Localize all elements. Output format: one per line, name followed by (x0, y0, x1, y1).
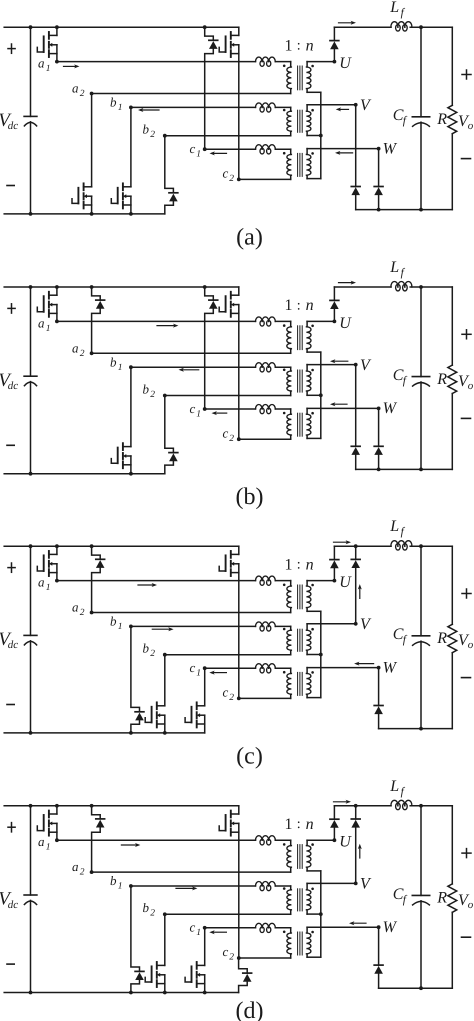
svg-text:R: R (436, 371, 447, 388)
inductor Lb series phase b (d) (256, 882, 276, 891)
svg-text:R: R (436, 890, 447, 907)
label W (c) (383, 659, 398, 676)
wire node W line (a) (307, 147, 380, 151)
label Vdc (c) (0, 629, 18, 651)
svg-text:1: 1 (118, 103, 123, 113)
wire node a1 line (c) (55, 579, 291, 583)
svg-text:n: n (306, 816, 314, 833)
label R (b) (436, 371, 447, 388)
svg-text:c: c (190, 660, 196, 675)
wire bottom dc rail (d) (4, 992, 238, 994)
arrow current ib1 right (d) (176, 886, 197, 890)
svg-text:b: b (110, 95, 117, 110)
label + output (c) (462, 589, 471, 598)
wire output top line (c) (334, 545, 452, 547)
transistor bottom b1 MOSFET (b) (111, 367, 133, 475)
label Vdc (a) (0, 110, 18, 132)
wire node W line (c) (307, 666, 380, 670)
svg-text:a: a (72, 81, 79, 96)
wire node W line (d) (307, 925, 380, 929)
wire bottom dc rail (c) (4, 732, 205, 734)
transformer T1 (d) (283, 840, 314, 872)
wire node a1 line (d) (55, 838, 291, 842)
svg-text:W: W (383, 400, 398, 417)
wire top dc rail (c) (4, 545, 239, 547)
arrow current iV left (a) (336, 107, 349, 111)
label + output (d) (462, 849, 471, 858)
svg-text:1: 1 (285, 297, 293, 314)
svg-text:1: 1 (285, 37, 293, 54)
label a1 (d) (38, 834, 51, 853)
wire node a2 line (a) (90, 92, 291, 96)
svg-text:2: 2 (80, 89, 85, 99)
label c1 (b) (190, 401, 202, 420)
label Cf (a) (393, 107, 408, 127)
svg-text:1: 1 (285, 816, 293, 833)
label b1 (b) (110, 354, 123, 373)
wire node b1 line (d) (129, 884, 291, 888)
wire node b2 line (d) (163, 912, 291, 916)
svg-text:1: 1 (118, 882, 123, 892)
label c2 (c) (223, 685, 235, 704)
label b2 (a) (143, 122, 156, 141)
inductor Lf (b) (391, 282, 412, 291)
label - input (b) (7, 444, 14, 446)
wire output bottom line (b) (356, 468, 453, 472)
wire top dc rail (b) (4, 286, 239, 288)
diode DV rectifier V bottom (a) (351, 105, 360, 210)
arrow current iU right (a) (339, 21, 357, 25)
wire node c2 line (d) (237, 956, 291, 960)
inductor La series phase a (d) (256, 836, 276, 845)
svg-text:1: 1 (118, 622, 123, 632)
svg-text:(a): (a) (236, 224, 263, 250)
svg-text:V: V (360, 876, 372, 893)
transformer T1 (b) (283, 321, 314, 353)
label c2 (b) (223, 425, 235, 444)
transformer T3 (c) (283, 668, 314, 699)
wire output top line (d) (334, 805, 452, 807)
svg-text:dc: dc (8, 120, 18, 132)
diode top c1 (b) (203, 285, 218, 409)
transformer T3 (d) (283, 927, 314, 958)
inductor Lb series phase b (a) (256, 103, 276, 112)
label c1 (d) (190, 920, 202, 939)
label - output (b) (462, 417, 471, 419)
label Vo (d) (458, 892, 474, 911)
arrow current iW left (b) (330, 402, 347, 406)
arrow current ic1 left (a) (210, 151, 227, 155)
wire node c1 line (a) (203, 147, 291, 151)
transformer T1 (a) (283, 62, 314, 94)
svg-text:2: 2 (150, 130, 155, 140)
diode DU rectifier U (a) (330, 27, 339, 61)
wire node c2 line (a) (237, 178, 291, 182)
diode DW rectifier W bottom (a) (374, 149, 383, 210)
diode DU rectifier U (d) (330, 806, 339, 840)
wire node V line (a) (307, 103, 358, 107)
svg-text:V: V (360, 616, 372, 633)
wire node V line (c) (307, 622, 358, 626)
svg-text:1: 1 (196, 928, 201, 938)
svg-text:a: a (38, 834, 45, 849)
diode bottom b2 (b) (165, 396, 178, 474)
svg-text:R: R (436, 111, 447, 128)
diode DW rectifier W bottom (b) (374, 408, 383, 469)
svg-text::: : (297, 817, 301, 832)
transformer T2 (b) (283, 365, 314, 396)
resistor R load (b) (448, 287, 457, 469)
svg-text:R: R (436, 630, 447, 647)
svg-text:b: b (110, 354, 117, 369)
transformer T1 (c) (283, 581, 314, 613)
label Vo (a) (458, 113, 474, 132)
label c1 (a) (190, 141, 202, 160)
svg-text:f: f (403, 634, 408, 646)
subfigure (c) group start (0, 0, 1, 1)
wire secondary star bus (c) (307, 611, 323, 697)
svg-text:U: U (339, 574, 352, 591)
label Cf (c) (393, 626, 408, 646)
svg-text:b: b (143, 381, 150, 396)
svg-text:dc: dc (8, 899, 18, 911)
diode top c1 (a) (203, 25, 218, 149)
transistor bottom b2 MOSFET (d) (145, 914, 167, 994)
transistor top c2 MOSFET (b) (219, 287, 239, 439)
diode DW rectifier W bottom (d) (374, 927, 383, 988)
svg-text:c: c (223, 685, 229, 700)
label + output (a) (462, 70, 471, 79)
transistor top a1 MOSFET (c) (37, 544, 59, 580)
diode bottom b2 (a) (165, 136, 178, 214)
svg-text:b: b (143, 122, 150, 137)
svg-text:1: 1 (196, 669, 201, 679)
resistor R load (d) (448, 806, 457, 988)
label - output (d) (462, 936, 471, 938)
arrow current ia1 right (b) (157, 324, 178, 328)
label b2 (d) (143, 900, 156, 919)
svg-text:V: V (360, 357, 372, 374)
wire output bottom line (a) (356, 208, 453, 212)
label R (c) (436, 630, 447, 647)
arrow current ic1 left (c) (209, 671, 226, 675)
svg-text:b: b (110, 873, 117, 888)
svg-text:2: 2 (229, 174, 234, 184)
label c2 (d) (223, 944, 235, 963)
wire top dc rail (d) (4, 805, 239, 807)
svg-text:a: a (38, 315, 45, 330)
label a1 (b) (38, 315, 51, 334)
svg-text:U: U (339, 834, 352, 851)
diode DW rectifier W bottom (c) (374, 668, 383, 729)
wire node U line (b) (307, 320, 336, 324)
svg-text:b: b (143, 900, 150, 915)
diode top a2 (d) (90, 804, 105, 872)
label Lf (d) (389, 778, 405, 798)
svg-text:W: W (383, 659, 398, 676)
svg-text:1: 1 (196, 150, 201, 160)
svg-text:(b): (b) (236, 484, 264, 510)
label Cf (b) (393, 367, 408, 387)
diode top a2 (b) (90, 285, 105, 353)
diode bottom b1 (d) (129, 886, 144, 994)
transistor top c2 MOSFET (d) (219, 806, 239, 958)
arrow current ia1 right (a) (64, 64, 80, 68)
label R (d) (436, 890, 447, 907)
label a2 (b) (72, 340, 85, 359)
wire node a2 line (c) (90, 611, 291, 615)
caption (c) (236, 743, 263, 769)
wire node U line (d) (307, 838, 336, 842)
inductor Lf (d) (391, 800, 412, 809)
wire top dc rail (a) (4, 26, 239, 28)
wire node U line (a) (307, 60, 336, 64)
label V (a) (360, 97, 372, 114)
label 1:n (c) (285, 556, 314, 573)
svg-text:1: 1 (46, 583, 51, 593)
resistor R load (a) (448, 27, 457, 209)
svg-text:n: n (306, 556, 314, 573)
svg-text:c: c (223, 425, 229, 440)
svg-text:W: W (383, 140, 398, 157)
diode DV freewheel V top (c) (351, 544, 360, 624)
label + output (b) (462, 330, 471, 339)
diode bottom b1 (c) (129, 626, 144, 734)
label + input (c) (8, 563, 15, 572)
transformer T2 (c) (283, 624, 314, 655)
svg-text:c: c (190, 920, 196, 935)
svg-text:f: f (401, 526, 406, 538)
capacitor Cf (d) (412, 804, 429, 988)
label W (b) (383, 400, 398, 417)
svg-text:2: 2 (80, 608, 85, 618)
svg-text:1: 1 (46, 324, 51, 334)
svg-text:f: f (403, 375, 408, 387)
label Vdc (d) (0, 889, 18, 911)
label b2 (c) (143, 641, 156, 660)
arrow current iV up (c) (358, 584, 362, 598)
label - input (a) (7, 185, 14, 187)
label U (b) (339, 315, 352, 332)
capacitor Vdc dc-link (d) (24, 804, 37, 995)
svg-text:2: 2 (150, 649, 155, 659)
transistor top c2 MOSFET (c) (219, 546, 239, 698)
arrow current iU right (b) (339, 281, 357, 285)
svg-text:L: L (389, 518, 399, 535)
svg-text:o: o (468, 120, 474, 132)
svg-text:(d): (d) (236, 998, 264, 1021)
diode DU rectifier U (b) (330, 287, 339, 321)
wire node W line (b) (307, 407, 380, 411)
label - output (c) (462, 677, 471, 679)
svg-text:U: U (339, 55, 352, 72)
label V (b) (360, 357, 372, 374)
label 1:n (a) (285, 37, 314, 54)
label V (c) (360, 616, 372, 633)
label Vdc (b) (0, 370, 18, 392)
svg-text:b: b (143, 641, 150, 656)
svg-text:2: 2 (229, 953, 234, 963)
svg-text::: : (297, 298, 301, 313)
svg-text:n: n (306, 37, 314, 54)
label + input (d) (8, 823, 15, 832)
label + input (b) (8, 304, 15, 313)
svg-text:V: V (360, 97, 372, 114)
label a1 (c) (38, 575, 51, 594)
wire output bottom line (d) (379, 986, 453, 990)
svg-text:a: a (38, 575, 45, 590)
label U (c) (339, 574, 352, 591)
svg-text:f: f (401, 7, 406, 19)
inductor Lf (c) (391, 541, 412, 550)
svg-text:a: a (72, 859, 79, 874)
wire node a2 line (b) (90, 351, 291, 355)
diode bottom c2 (d) (239, 958, 252, 993)
svg-text:1: 1 (46, 843, 51, 853)
svg-text:U: U (339, 315, 352, 332)
svg-text:2: 2 (150, 390, 155, 400)
svg-text:c: c (223, 166, 229, 181)
arrow current iW left (c) (354, 662, 374, 666)
label a2 (c) (72, 600, 85, 619)
svg-text:f: f (403, 894, 408, 906)
svg-text:b: b (110, 614, 117, 629)
wire node b2 line (b) (163, 394, 291, 398)
label V (d) (360, 876, 372, 893)
svg-text:a: a (38, 56, 45, 71)
wire node c1 line (d) (203, 926, 291, 930)
wire output top line (a) (334, 26, 452, 28)
wire node b1 line (b) (129, 365, 291, 369)
svg-text:1: 1 (46, 64, 51, 74)
inductor La series phase a (b) (256, 317, 276, 326)
diode DV rectifier V bottom (b) (351, 365, 360, 470)
label Vo (c) (458, 632, 474, 651)
arrow current iU right (d) (334, 800, 352, 804)
wire node c2 line (b) (237, 437, 291, 441)
svg-text:2: 2 (80, 868, 85, 878)
wire node a1 line (a) (55, 60, 291, 64)
label b2 (b) (143, 381, 156, 400)
wire node U line (c) (307, 579, 336, 583)
svg-text:o: o (468, 899, 474, 911)
svg-text:1: 1 (196, 409, 201, 419)
arrow current ib1 left (a) (138, 108, 159, 112)
arrow current ia1 right (c) (138, 583, 157, 587)
subfigure (d) group start (0, 0, 1, 1)
arrow current iW left (d) (349, 921, 366, 925)
caption (b) (236, 484, 264, 510)
label W (d) (383, 919, 398, 936)
arrow current ib1 left (b) (179, 368, 199, 372)
wire node b1 line (a) (129, 106, 291, 110)
inductor Lf (a) (391, 22, 412, 31)
svg-text:2: 2 (229, 434, 234, 444)
wire node c1 line (c) (203, 666, 291, 670)
svg-text::: : (297, 39, 301, 54)
wire node b2 line (c) (163, 653, 291, 657)
label c1 (c) (190, 660, 202, 679)
wire secondary star bus (d) (307, 871, 323, 957)
inductor La series phase a (c) (256, 576, 276, 585)
inductor Lb series phase b (c) (256, 622, 276, 631)
label b1 (a) (110, 95, 123, 114)
label Lf (a) (389, 0, 405, 19)
label b1 (c) (110, 614, 123, 633)
arrow current ia1 right (d) (121, 843, 140, 847)
capacitor Cf (a) (412, 25, 429, 209)
wire node b1 line (c) (129, 625, 291, 629)
svg-text:L: L (389, 259, 399, 276)
label Cf (d) (393, 886, 408, 906)
wire node c1 line (b) (203, 407, 291, 411)
resistor R load (c) (448, 546, 457, 728)
svg-text:2: 2 (229, 693, 234, 703)
arrow current ic1 left (d) (209, 930, 226, 934)
svg-text:(c): (c) (236, 743, 263, 769)
subfigure (b) group start (0, 0, 1, 1)
label U (a) (339, 55, 352, 72)
transformer T2 (a) (283, 105, 314, 136)
diode DV freewheel V top (d) (351, 804, 360, 884)
svg-text:f: f (401, 267, 406, 279)
arrow current ib1 right (c) (152, 627, 173, 631)
transformer T2 (d) (283, 883, 314, 914)
wire node b2 line (a) (163, 134, 291, 138)
caption (d) (236, 998, 264, 1021)
label c2 (a) (223, 166, 235, 185)
inductor Lc series phase c (b) (256, 405, 276, 414)
transformer T3 (a) (283, 149, 314, 180)
diode top a2 (c) (90, 544, 105, 612)
inductor Lc series phase c (c) (256, 664, 276, 673)
wire secondary star bus (a) (307, 92, 323, 178)
wire node c2 line (c) (237, 697, 291, 701)
svg-text:dc: dc (8, 380, 18, 392)
svg-text:a: a (72, 600, 79, 615)
transistor bottom a2 MOSFET (a) (72, 94, 94, 216)
wire bottom dc rail (a) (4, 213, 165, 215)
label 1:n (d) (285, 816, 314, 833)
capacitor Vdc dc-link (b) (24, 285, 37, 476)
label a2 (a) (72, 81, 85, 100)
capacitor Cf (b) (412, 285, 429, 469)
arrow current iV up (d) (358, 844, 362, 858)
transistor bottom b2 MOSFET (c) (145, 655, 167, 735)
capacitor Cf (c) (412, 544, 429, 728)
svg-text:f: f (401, 786, 406, 798)
transistor top c2 MOSFET (a) (219, 27, 239, 179)
label a1 (a) (38, 56, 51, 75)
inductor Lc series phase c (d) (256, 923, 276, 932)
label W (a) (383, 140, 398, 157)
inductor Lb series phase b (b) (256, 363, 276, 372)
wire node a1 line (b) (55, 320, 291, 324)
svg-text:2: 2 (150, 909, 155, 919)
wire secondary star bus (b) (307, 352, 323, 438)
capacitor Vdc dc-link (c) (24, 544, 37, 735)
wire node a2 line (d) (90, 870, 291, 874)
transistor bottom b1 MOSFET (a) (111, 107, 133, 215)
wire output bottom line (c) (379, 727, 453, 731)
svg-text:dc: dc (8, 639, 18, 651)
arrow current iW left (a) (335, 151, 353, 155)
label - input (c) (7, 704, 14, 706)
label 1:n (b) (285, 297, 314, 314)
svg-text:f: f (403, 115, 408, 127)
transistor top a1 MOSFET (d) (37, 804, 59, 840)
svg-text:n: n (306, 297, 314, 314)
